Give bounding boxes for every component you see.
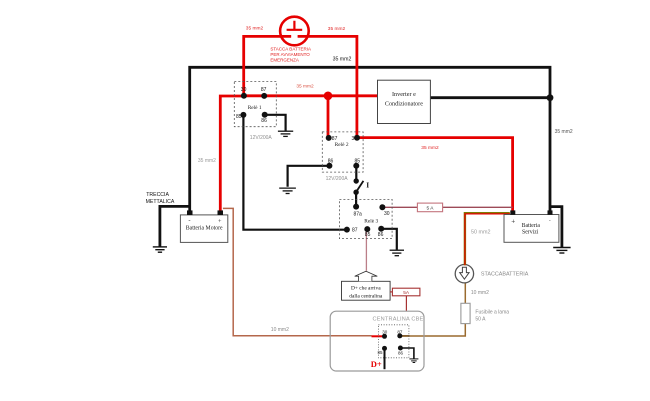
- svg-text:85: 85: [236, 114, 242, 120]
- svg-text:35 mm2: 35 mm2: [328, 26, 346, 32]
- svg-text:+: +: [511, 218, 515, 226]
- wire relay1 pin30 to batteria motore plus: [220, 96, 244, 211]
- label stacca batteria per avviamento emergenza: [270, 46, 311, 62]
- wire batteria motore plus to centralina pin30 (10mm2): [223, 208, 372, 335]
- battery B2 batteria servizi: [504, 215, 559, 243]
- svg-text:35 mm2: 35 mm2: [555, 129, 573, 135]
- svg-text:30: 30: [352, 136, 358, 142]
- node junction inverter negative on frame: [547, 94, 554, 101]
- ground treccia mettalica: [153, 247, 167, 252]
- svg-text:35 mm2: 35 mm2: [198, 158, 216, 164]
- relay K2 rele 2 dashed box: [322, 132, 363, 172]
- svg-text:30: 30: [382, 330, 388, 335]
- staccabatteria symbol: [455, 265, 473, 283]
- relay K1 pin 30: [241, 93, 247, 99]
- svg-text:METTALICA: METTALICA: [146, 199, 175, 205]
- wire red batteria servizi plus to staccabatteria: [465, 214, 510, 265]
- svg-text:85: 85: [355, 159, 361, 165]
- relay K1 labels: [236, 87, 267, 124]
- svg-text:Batteria: Batteria: [522, 223, 541, 229]
- svg-text:10 mm2: 10 mm2: [271, 327, 289, 333]
- wire olive batteria servizi plus to staccabatteria: [465, 213, 510, 265]
- svg-text:I: I: [366, 181, 369, 190]
- svg-text:87: 87: [397, 330, 403, 335]
- switch I contacts: [354, 178, 359, 183]
- box U1 inverter e condizionatore: [378, 80, 431, 123]
- wire inverter negative to frame: [430, 96, 550, 99]
- wire relay3 pin30 through fuse 5A to batteria servizi plus: [382, 206, 512, 208]
- ground relay2: [279, 188, 296, 193]
- svg-text:Batteria Motore: Batteria Motore: [186, 226, 223, 232]
- relay K4 labels: [377, 330, 403, 356]
- relay K3 pin 86: [378, 226, 384, 232]
- fuse F2 5A: [392, 288, 420, 296]
- box centralina CBE: [330, 311, 424, 371]
- arrow into D+ box: [355, 271, 378, 281]
- svg-text:86: 86: [328, 159, 334, 165]
- svg-text:50 mm2: 50 mm2: [471, 230, 490, 236]
- relay K4 pin 86: [398, 346, 403, 351]
- ground batteria servizi: [553, 248, 570, 254]
- wire red 35mm2 stacca batteria left to relay1 pin30: [244, 36, 291, 95]
- svg-text:35 mm2: 35 mm2: [333, 56, 352, 62]
- relay K3 pin 87a: [353, 204, 359, 210]
- wire relay2 pin85 to switch I: [355, 166, 357, 181]
- svg-text:86: 86: [378, 232, 384, 238]
- wire relay1 pin85 to relay3 pin87: [243, 115, 347, 230]
- relay K4 pin 85: [382, 346, 387, 351]
- svg-text:Relè 1: Relè 1: [248, 105, 262, 111]
- svg-text:CENTRALINA CBE: CENTRALINA CBE: [373, 316, 424, 322]
- label treccia mettalica: [146, 192, 175, 205]
- svg-text:30: 30: [384, 211, 390, 217]
- wire batteria servizi minus to ground: [550, 207, 562, 248]
- wire fuse 5A to centralina: [405, 296, 407, 311]
- relay K4 pin 87: [397, 333, 402, 338]
- fuse F1 5A: [417, 203, 442, 212]
- ground relay1: [278, 131, 293, 136]
- svg-text:EMERGENZA: EMERGENZA: [270, 57, 299, 62]
- svg-text:D+ che arriva: D+ che arriva: [351, 285, 381, 291]
- wire treccia mettalica to ground: [160, 206, 189, 246]
- svg-text:86: 86: [261, 118, 267, 124]
- svg-text:+: +: [218, 218, 222, 225]
- wire centralina pin85 D+ output: [384, 348, 386, 369]
- terminal batteria servizi plus: [510, 210, 515, 214]
- wire red 35mm2 relay2 pin30 to batteria servizi plus: [357, 138, 513, 211]
- svg-text:dalla centralina: dalla centralina: [349, 294, 383, 300]
- svg-text:Relè 3: Relè 3: [364, 218, 378, 224]
- wire centralina pin86 to ground: [400, 348, 414, 359]
- relay K4 centralina dotted box: [378, 325, 409, 358]
- wire red bus relay1 pin30-pin87 to inverter: [244, 94, 378, 97]
- relay K1 pin 85: [240, 112, 246, 118]
- wire negative 35mm2 frame: batteria motore minus to batteria servizi minus: [190, 67, 550, 211]
- terminal batteria motore minus: [187, 210, 193, 215]
- relay K2 pin 30: [354, 135, 360, 141]
- wire centralina pin87 to blade fuse and staccabatteria: [400, 283, 465, 336]
- wire switch I to relay3 pin87a: [355, 192, 357, 206]
- svg-text:10 mm2: 10 mm2: [471, 290, 489, 296]
- relay K2 labels: [328, 136, 361, 165]
- label fusibile a lama 50A: [475, 309, 509, 322]
- fuse F3 fusibile a lama 50A: [461, 303, 470, 323]
- terminal batteria servizi minus: [548, 210, 553, 214]
- svg-text:87: 87: [261, 87, 267, 93]
- wire red tail into centralina pin30: [372, 335, 385, 337]
- svg-text:Inverter e: Inverter e: [392, 91, 416, 98]
- svg-text:D+: D+: [371, 359, 382, 369]
- svg-text:STACCABATTERIA: STACCABATTERIA: [481, 271, 529, 277]
- relay K2 pin 85: [353, 163, 359, 169]
- svg-text:12V/200A: 12V/200A: [326, 176, 349, 182]
- wire relay1 pin86 to ground: [265, 115, 286, 131]
- relay K3 pin 85: [364, 226, 370, 232]
- svg-text:87: 87: [352, 227, 358, 233]
- svg-text:85: 85: [377, 350, 383, 355]
- wire relay3 pin85 to D+ arrow: [365, 229, 367, 271]
- svg-text:Servizi: Servizi: [522, 230, 539, 236]
- svg-text:87: 87: [332, 136, 338, 142]
- svg-text:-: -: [188, 217, 190, 224]
- wire relay3 pin86 to ground: [381, 229, 397, 250]
- svg-text:Condizionatore: Condizionatore: [385, 101, 423, 108]
- svg-text:85: 85: [365, 232, 371, 238]
- relay K4 pin 30: [382, 334, 387, 339]
- box D+ che arriva dalla centralina: [342, 281, 391, 300]
- ground centralina: [409, 359, 418, 363]
- relay K1 pin 87: [261, 93, 267, 99]
- wire relay2 pin86 to ground: [288, 166, 330, 187]
- svg-text:STACCA BATTERIA: STACCA BATTERIA: [270, 46, 311, 51]
- terminal batteria motore plus: [218, 210, 224, 215]
- svg-text:35 mm2: 35 mm2: [246, 26, 264, 32]
- svg-text:12V/200A: 12V/200A: [250, 135, 273, 141]
- relay K2 pin 86: [326, 163, 332, 169]
- svg-text:50 A: 50 A: [475, 317, 486, 323]
- node red junction on bus: [324, 92, 333, 101]
- switch I lever: [356, 181, 363, 192]
- svg-text:86: 86: [398, 351, 404, 356]
- relay K3 labels: [352, 211, 390, 238]
- svg-text:5 A: 5 A: [427, 205, 435, 211]
- battery B1 batteria motore: [180, 215, 227, 243]
- svg-text:35 mm2: 35 mm2: [296, 84, 314, 90]
- wire centralina pin87 black stub: [400, 335, 410, 337]
- wire junction down to relay2 pin87: [327, 96, 330, 138]
- svg-text:Fusibile a lama: Fusibile a lama: [475, 309, 509, 315]
- relay K2 pin 87: [326, 135, 332, 141]
- relay K3 rele 3 dashed box: [339, 199, 392, 238]
- relay K1 pin 86: [262, 112, 268, 118]
- relay K1 rele 1 dashed box: [234, 81, 276, 126]
- wire red 35mm2 stacca batteria right to relay2 pin30: [298, 36, 357, 137]
- battery disconnect switch S1 (stacca batteria emergenza): [280, 17, 309, 46]
- svg-text:5A: 5A: [403, 290, 410, 296]
- wire D+ box to fuse 5A: [390, 291, 392, 293]
- svg-text:87a: 87a: [354, 211, 363, 217]
- svg-text:Relè 2: Relè 2: [335, 142, 349, 148]
- relay K3 pin 30: [379, 204, 385, 210]
- svg-text:35 mm2: 35 mm2: [421, 145, 439, 151]
- svg-text:PER AVVIAMENTO: PER AVVIAMENTO: [270, 52, 310, 57]
- svg-text:30: 30: [241, 87, 247, 93]
- relay K3 pin 87: [344, 227, 350, 233]
- ground relay3: [390, 250, 404, 256]
- svg-text:TRECCIA: TRECCIA: [146, 192, 169, 198]
